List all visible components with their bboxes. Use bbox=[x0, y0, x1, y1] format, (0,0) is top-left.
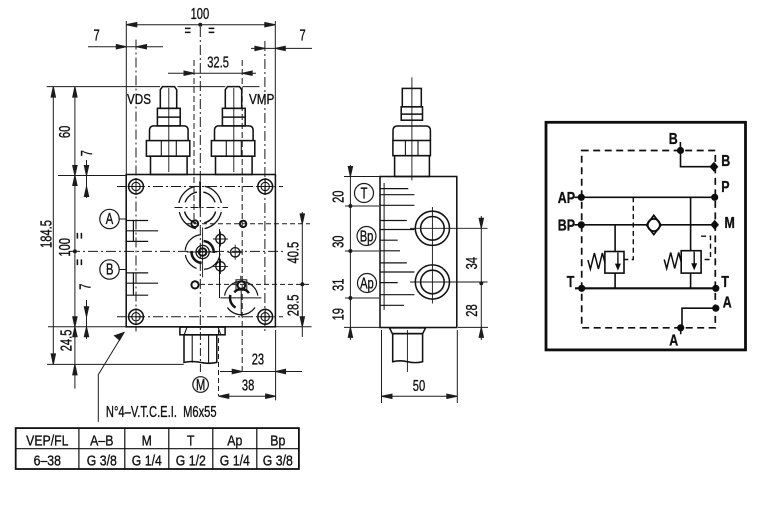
svg-text:B: B bbox=[669, 130, 678, 148]
node BP bbox=[578, 221, 585, 228]
label circle Bp side bbox=[357, 227, 376, 246]
hidden line through small holes lower bbox=[200, 283, 310, 285]
label circle A bbox=[100, 209, 127, 228]
svg-text:T: T bbox=[567, 273, 575, 291]
relief valve RV2 spring bbox=[664, 253, 681, 269]
svg-text:28: 28 bbox=[463, 304, 480, 316]
wire T line bbox=[575, 287, 716, 289]
node T right bbox=[712, 285, 719, 292]
node A bottom bbox=[677, 324, 684, 331]
svg-text:19: 19 bbox=[330, 308, 347, 320]
table texts bbox=[26, 432, 293, 468]
top extension line at screw tops bbox=[47, 86, 260, 88]
relief valve RV2 body bbox=[681, 197, 701, 288]
extension line block top left bbox=[58, 175, 126, 177]
svg-text:=: = bbox=[71, 232, 88, 239]
extension line block bottom left bbox=[48, 326, 126, 328]
extension right edge down bbox=[275, 330, 277, 400]
svg-text:AP: AP bbox=[558, 189, 575, 207]
svg-text:VMP: VMP bbox=[249, 91, 274, 108]
dimension 7 top-left bbox=[88, 45, 163, 49]
relief valve RV1 body bbox=[605, 225, 624, 288]
CENTERLINES front view bbox=[70, 27, 310, 375]
svg-text:BP: BP bbox=[558, 216, 575, 234]
label circle B bbox=[100, 260, 127, 279]
wire BP to M line bbox=[575, 224, 715, 226]
leader line N4 screws bbox=[98, 333, 124, 422]
VMP adjustment screw bbox=[211, 87, 254, 175]
dimension 38 bbox=[219, 394, 276, 398]
cartridge vertical centerline bbox=[241, 60, 243, 375]
dimension 7 top-right bbox=[251, 46, 312, 50]
node AP bbox=[578, 194, 585, 201]
dimension 7 left upper bbox=[84, 160, 88, 198]
vertical centerline of block bbox=[199, 27, 201, 332]
svg-text:6–38: 6–38 bbox=[34, 452, 62, 468]
svg-text:Bp: Bp bbox=[360, 228, 374, 245]
horizontal mid centerline bbox=[70, 250, 283, 252]
svg-text:M: M bbox=[725, 213, 735, 231]
cartridge cavity bottom-right bbox=[220, 276, 261, 317]
side bottom plug bbox=[389, 328, 425, 372]
small hole lower-left bbox=[191, 281, 198, 288]
node A right bbox=[712, 305, 719, 312]
svg-text:G 3/8: G 3/8 bbox=[87, 452, 117, 468]
svg-text:50: 50 bbox=[413, 377, 425, 394]
dimension 23 bbox=[220, 369, 302, 373]
relief valve RV1 spring bbox=[588, 253, 605, 269]
svg-text:G 3/8: G 3/8 bbox=[263, 452, 293, 468]
mounting bolt bottom-right bbox=[257, 308, 274, 325]
svg-text:A–B: A–B bbox=[90, 432, 113, 448]
relief valve RV1 pilot line bbox=[624, 197, 633, 259]
dimension 184.5 line bbox=[51, 87, 55, 365]
svg-text:24.5: 24.5 bbox=[58, 330, 75, 352]
small hole on cartridge axis top bbox=[240, 221, 246, 227]
dimension 7 left lower bbox=[84, 300, 88, 339]
side port circle lower bbox=[415, 265, 449, 299]
svg-text:Ap: Ap bbox=[360, 275, 374, 292]
svg-text:Bp: Bp bbox=[270, 432, 285, 448]
svg-text:32.5: 32.5 bbox=[207, 54, 229, 71]
block body side view bbox=[380, 177, 457, 328]
table column dividers bbox=[79, 428, 257, 469]
svg-text:38: 38 bbox=[242, 377, 254, 394]
svg-text:A: A bbox=[723, 293, 732, 311]
svg-text:=: = bbox=[71, 259, 88, 266]
chain 20-30-31-19 line bbox=[348, 165, 352, 340]
FRONT VIEW GROUP bbox=[126, 87, 275, 364]
label circle M bbox=[193, 377, 209, 393]
side crosshairs bbox=[410, 207, 488, 304]
svg-text:7: 7 bbox=[77, 284, 94, 290]
dimension chain 60-100-24.5 line bbox=[73, 87, 77, 389]
vertical line joining drill holes bbox=[219, 229, 221, 298]
dimension 40.5 / 28.5 right chain bbox=[276, 212, 312, 337]
svg-text:T: T bbox=[721, 273, 729, 291]
wire A branch bottom bbox=[681, 308, 716, 334]
bolt vertical centerline left bbox=[135, 40, 137, 332]
svg-text:23: 23 bbox=[252, 351, 264, 368]
dimension 50 bbox=[382, 330, 458, 403]
wire P line (AP to P) bbox=[575, 196, 715, 198]
FRONT VIEW DIMENSIONS bbox=[47, 21, 312, 400]
dimension 32.5 bbox=[168, 71, 256, 75]
svg-text:G 1/4: G 1/4 bbox=[220, 452, 250, 468]
label circle Ap side bbox=[358, 274, 377, 293]
svg-text:30: 30 bbox=[330, 235, 347, 247]
HYDRAULIC SCHEMATIC bbox=[546, 122, 746, 350]
cavity center front bbox=[185, 228, 220, 278]
svg-text:A: A bbox=[669, 331, 678, 349]
VDS adjustment screw bbox=[146, 87, 189, 175]
wire B branch top bbox=[680, 142, 714, 167]
node P bbox=[711, 194, 718, 201]
block body front view bbox=[126, 175, 275, 327]
cavity VDS front (broken circles) bbox=[179, 181, 221, 228]
svg-text:B: B bbox=[721, 152, 730, 170]
svg-text:34: 34 bbox=[463, 257, 480, 270]
TEXTS front view bbox=[38, 5, 306, 420]
dimension 34 / 28 right chain bbox=[458, 216, 488, 340]
svg-text:VEP/FL: VEP/FL bbox=[26, 432, 69, 448]
svg-text:M: M bbox=[142, 432, 152, 448]
cavity VDS horizontal centerline bbox=[175, 207, 229, 209]
side port circle upper bbox=[415, 211, 449, 245]
PORTS TABLE bbox=[16, 428, 299, 469]
mounting bolt bottom-left bbox=[128, 308, 145, 325]
svg-text:31: 31 bbox=[330, 279, 347, 291]
side texts bbox=[330, 185, 480, 395]
table row divider bbox=[16, 448, 299, 450]
svg-text:100: 100 bbox=[56, 238, 73, 257]
drill position hole 2 bbox=[228, 245, 243, 260]
extension line bottom stub level bbox=[47, 363, 184, 365]
relief valve RV2 pilot line bbox=[701, 236, 710, 259]
schematic outer box bbox=[546, 122, 746, 350]
svg-text:P: P bbox=[721, 178, 729, 196]
small hole below cavity VDS bbox=[191, 220, 198, 227]
bolt horizontal centerline top bbox=[117, 186, 283, 188]
extension dashed at 38 left bbox=[218, 330, 220, 396]
drill position hole 3 bbox=[213, 259, 228, 274]
side port thread marks bbox=[380, 183, 414, 310]
hidden line through small holes upper bbox=[186, 223, 310, 225]
port A thread marks bbox=[126, 221, 158, 242]
svg-text:A: A bbox=[106, 210, 113, 227]
svg-text:7: 7 bbox=[94, 27, 100, 44]
svg-text:T: T bbox=[187, 432, 195, 448]
mounting bolt top-left bbox=[128, 178, 145, 195]
side adjustment screw bbox=[393, 77, 431, 180]
node M bbox=[710, 220, 719, 230]
svg-text:Ap: Ap bbox=[227, 432, 242, 448]
svg-text:184.5: 184.5 bbox=[38, 220, 55, 248]
table outer border bbox=[16, 428, 299, 469]
svg-text:100: 100 bbox=[191, 5, 210, 22]
schematic dashed envelope bbox=[582, 151, 716, 328]
drill position hole 1 bbox=[213, 232, 228, 247]
svg-text:VDS: VDS bbox=[127, 91, 151, 108]
svg-text:G 1/4: G 1/4 bbox=[132, 452, 162, 468]
svg-text:M: M bbox=[196, 376, 205, 393]
svg-text:B: B bbox=[106, 261, 113, 278]
extension lines left side bbox=[344, 177, 381, 328]
svg-text:G 1/2: G 1/2 bbox=[176, 452, 206, 468]
SIDE VIEW DIMENSIONS bbox=[330, 165, 488, 403]
svg-text:20: 20 bbox=[330, 190, 347, 202]
svg-text:T: T bbox=[361, 185, 368, 202]
svg-text:7: 7 bbox=[300, 27, 306, 44]
node B right bbox=[709, 162, 718, 172]
schematic labels bbox=[558, 130, 735, 349]
node B top bbox=[677, 147, 684, 154]
node T left bbox=[578, 285, 585, 292]
port B thread marks bbox=[126, 273, 158, 295]
mounting bolt top-right bbox=[257, 178, 274, 195]
svg-text:=: = bbox=[185, 22, 192, 39]
SIDE VIEW GROUP bbox=[380, 77, 488, 372]
dimension 100 top line bbox=[126, 21, 275, 175]
cavity VDS vertical centerline bbox=[193, 60, 195, 224]
svg-text:40.5: 40.5 bbox=[285, 242, 302, 264]
svg-text:=: = bbox=[208, 22, 215, 39]
bolt vertical centerline right bbox=[264, 41, 266, 331]
svg-text:60: 60 bbox=[56, 126, 73, 138]
svg-text:28.5: 28.5 bbox=[285, 294, 302, 316]
bolt horizontal centerline bottom bbox=[117, 316, 283, 318]
svg-text:7: 7 bbox=[78, 150, 95, 156]
check valve CV1 bbox=[647, 215, 662, 234]
label circle T side bbox=[355, 184, 374, 203]
M port plug below block bbox=[180, 327, 225, 363]
svg-text:N°4–V.T.C.E.I. M6x55: N°4–V.T.C.E.I. M6x55 bbox=[106, 403, 217, 420]
